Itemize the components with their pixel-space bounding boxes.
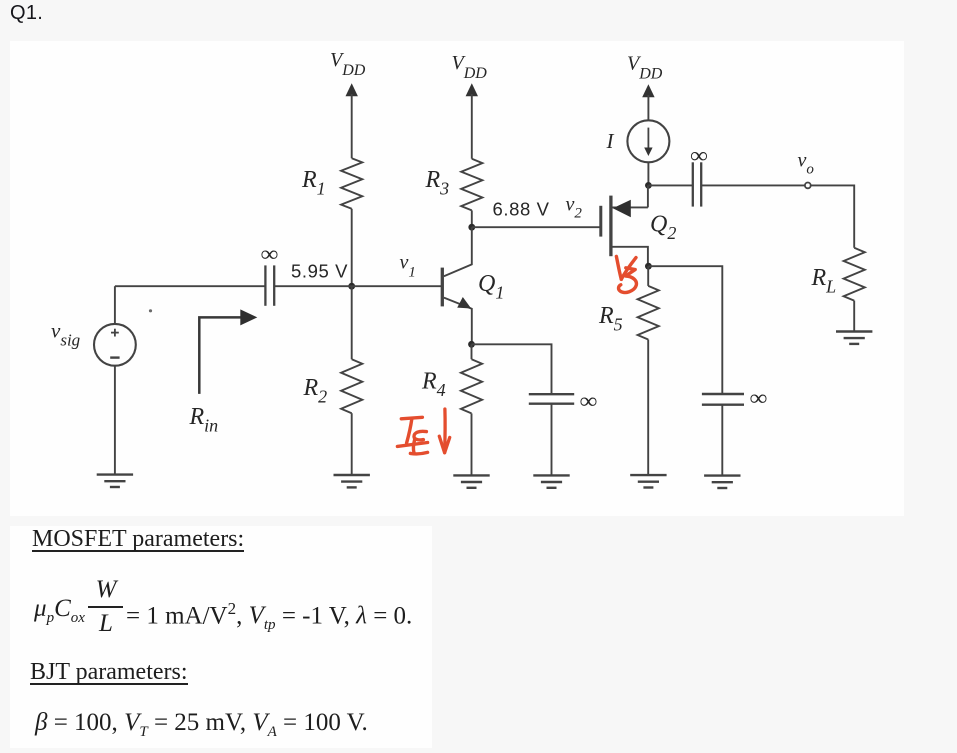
vsig minus sign	[110, 356, 119, 358]
svg-text:∞: ∞	[750, 385, 768, 410]
svg-text:RL: RL	[811, 265, 837, 297]
ground under C4	[704, 476, 740, 488]
BJT parameter values	[35, 710, 368, 745]
svg-text:I: I	[606, 129, 615, 153]
svg-text:VDD: VDD	[330, 49, 366, 79]
svg-text:vsig: vsig	[51, 319, 80, 350]
wire top of vsig source	[114, 286, 116, 324]
ground under R5	[630, 475, 666, 487]
title Q1.	[10, 2, 43, 25]
heading BJT parameters	[30, 661, 188, 685]
current source I circle	[627, 120, 669, 162]
Rin measurement arrow	[199, 309, 257, 394]
wire source node to output capacitor	[648, 184, 692, 186]
svg-text:VDD: VDD	[452, 52, 488, 82]
current source internal arrow	[644, 128, 652, 156]
wire V3 node to bypass capacitor C4	[648, 266, 722, 393]
wire vsig to input capacitor	[115, 285, 266, 287]
svg-text:∞: ∞	[261, 241, 279, 266]
transistor Q2 gate bar	[599, 206, 602, 237]
capacitor Cout plates	[693, 162, 701, 206]
ground under R4	[453, 475, 489, 487]
svg-text:R5: R5	[598, 303, 623, 335]
wire R1 bottom to node v1	[351, 209, 353, 286]
svg-text:vo: vo	[798, 150, 815, 178]
transistor Q1 base bar	[441, 268, 444, 307]
capacitor C4 bypass plates	[702, 394, 744, 405]
svg-text:R1: R1	[301, 167, 326, 199]
wire R5 to ground	[647, 340, 649, 475]
ground under vsig	[97, 475, 133, 487]
heading MOSFET parameters	[32, 528, 244, 552]
wire input capacitor to Q1 base through node	[274, 285, 441, 287]
wire emitter node to R4	[471, 344, 473, 359]
transistor Q2 channel bar	[609, 196, 612, 257]
wire C4 to ground	[721, 405, 723, 475]
svg-text:6.88 V: 6.88 V	[493, 199, 550, 220]
svg-text:5.95 V: 5.95 V	[291, 261, 348, 282]
transistor Q1 collector	[444, 227, 472, 276]
wire current source to source node	[647, 162, 649, 185]
wire collector node to Q2 gate	[472, 226, 600, 228]
resistor R4	[461, 359, 482, 413]
ground under C2	[533, 475, 569, 487]
schematic panel	[10, 41, 904, 516]
red annotation current IE	[397, 417, 427, 454]
wire RL to ground	[853, 301, 855, 331]
wire node to R2 top	[351, 286, 353, 359]
resistor R5	[638, 286, 659, 340]
source vsig circle	[94, 324, 136, 366]
capacitor C2 bypass plates	[529, 394, 574, 404]
wire vo to RL	[811, 185, 855, 247]
stray scan speck	[149, 309, 152, 312]
resistor R1	[341, 158, 362, 209]
node junction V3	[645, 263, 652, 270]
wire C2 to ground	[551, 404, 553, 475]
MOSFET parameter values	[34, 596, 85, 631]
wire R4 to ground	[471, 413, 473, 474]
svg-text:Q1: Q1	[478, 271, 504, 303]
svg-text:∞: ∞	[690, 143, 708, 168]
svg-text:v2: v2	[566, 194, 583, 222]
svg-text:R3: R3	[425, 167, 450, 199]
svg-text:VDD: VDD	[627, 53, 663, 83]
resistor RL	[844, 248, 865, 301]
resistor R3	[461, 159, 482, 211]
resistor R2	[341, 359, 362, 413]
transistor Q2 source wire with arrow	[611, 185, 648, 217]
red annotation IE arrow	[439, 409, 449, 453]
ground under RL	[836, 332, 872, 344]
svg-text:Rin: Rin	[189, 404, 219, 436]
svg-text:Q2: Q2	[650, 212, 676, 244]
red annotation node voltage V3	[616, 256, 636, 292]
svg-text:v1: v1	[400, 252, 416, 281]
power VDD rail 1 arrow	[346, 83, 358, 158]
transistor Q2 drain wire	[611, 247, 648, 266]
wire emitter node to bypass capacitor	[472, 344, 552, 393]
power VDD rail 3 arrow	[642, 84, 654, 120]
svg-text:∞: ∞	[580, 388, 598, 413]
wire vsig bottom to ground	[114, 366, 116, 474]
node junction Q2 source	[645, 182, 652, 189]
wire R3 bottom to node v2 net	[471, 210, 473, 227]
transistor Q1 emitter with arrow	[444, 298, 472, 345]
node junction 6.88V	[468, 224, 475, 231]
wire output capacitor to vo terminal	[701, 184, 805, 186]
wire V3 node to R5	[647, 266, 649, 286]
parameters panel	[10, 526, 432, 748]
capacitor Cin infinity	[265, 265, 274, 305]
ground under R2	[334, 475, 370, 487]
node junction Q1 emitter	[468, 341, 475, 348]
vsig plus sign	[111, 329, 119, 337]
power VDD rail 2 arrow	[466, 83, 478, 159]
svg-text:R2: R2	[303, 375, 328, 407]
svg-text:R4: R4	[421, 369, 446, 401]
node junction at 5.95V	[348, 283, 355, 290]
terminal vo open circle	[805, 183, 811, 189]
wire R2 bottom to ground	[351, 413, 353, 474]
